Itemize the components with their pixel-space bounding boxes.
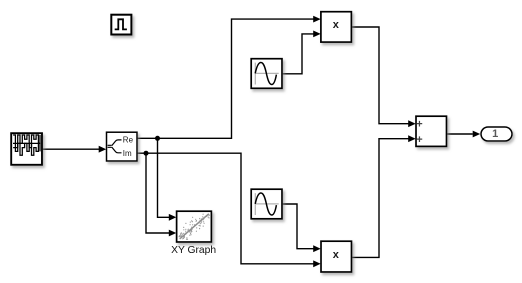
block: Pulse Generator <box>111 15 131 35</box>
block: XY Graph <box>177 211 212 242</box>
arrowhead into Product1 input1 <box>313 16 321 23</box>
arrowhead into XY Graph input2 <box>169 230 177 237</box>
wire: Product2 output to Sum input2 <box>352 139 409 258</box>
wire: branch from Re junction down to XY Graph input1 <box>158 138 170 217</box>
wire: Sine Wave 2 to Product2 input1 <box>282 204 314 249</box>
svg-text:+: + <box>416 134 422 146</box>
svg-text:Im: Im <box>123 149 132 158</box>
wire: Im output right, down at x=241, to Product2 input2 <box>137 153 314 264</box>
wire: Sum output to Outport 1 <box>447 133 473 135</box>
arrowhead into XY Graph input1 <box>169 214 177 221</box>
svg-text:1: 1 <box>492 128 498 140</box>
arrowhead into Outport 1 <box>473 131 481 138</box>
wire: branch from Im junction down to XY Graph input2 <box>146 153 169 233</box>
wire: Random Source to Complex-to-Real-Imag <box>42 148 99 150</box>
block: Complex to Real-Imag <box>107 132 138 161</box>
block: Product 1 <box>321 12 352 42</box>
block: Sine Wave 2 <box>251 189 282 219</box>
wire: Product1 output to Sum input1 <box>352 27 409 124</box>
junction on Re wire <box>155 136 160 141</box>
svg-text:x: x <box>333 249 340 261</box>
svg-text:Re: Re <box>123 135 134 144</box>
arrowhead into Product2 input1 <box>313 245 321 252</box>
junction on Im wire <box>144 151 149 156</box>
arrowhead into Product1 input2 <box>313 31 321 38</box>
arrowhead into Complex block input <box>99 146 107 153</box>
block: Sum <box>416 116 447 146</box>
svg-text:XY Graph: XY Graph <box>171 245 216 256</box>
arrowhead into Sum input1 <box>408 120 416 127</box>
arrowhead into Product2 input2 <box>313 260 321 267</box>
arrowhead into Sum input2 <box>408 135 416 142</box>
wire: Sine Wave 1 to Product1 input2 <box>282 34 314 74</box>
wire: Re output to Product1 input1 (right, up at x=231.5, right) <box>137 19 314 138</box>
block: Sine Wave 1 <box>251 59 282 89</box>
svg-text:+: + <box>416 119 422 131</box>
block: Product 2 <box>321 241 352 272</box>
block: Random Source <box>11 133 42 165</box>
svg-text:x: x <box>333 19 340 31</box>
block: Outport 1 <box>481 127 512 141</box>
